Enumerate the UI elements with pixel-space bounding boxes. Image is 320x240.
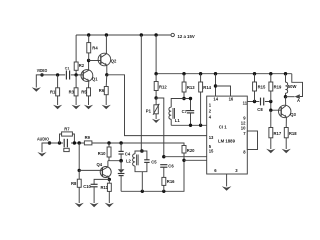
node Q4 base branch <box>78 141 81 144</box>
wire base node to Q4 <box>79 169 102 171</box>
wire IC ground stem <box>226 174 228 186</box>
node pin14 branch <box>214 84 217 87</box>
node L2 tank top <box>140 149 144 153</box>
svg-text:C8: C8 <box>257 107 263 112</box>
svg-text:12 a 15V: 12 a 15V <box>178 34 195 39</box>
svg-text:R11: R11 <box>101 185 109 190</box>
node R10 top <box>107 141 110 144</box>
wire choke bottom <box>285 93 287 97</box>
svg-text:R5: R5 <box>81 89 87 94</box>
wire R1 top <box>57 75 59 88</box>
wire rail to R4 <box>88 35 90 43</box>
node C3 right <box>73 141 76 144</box>
resistor R15 <box>253 74 266 91</box>
svg-text:R12: R12 <box>159 84 167 89</box>
svg-text:R20: R20 <box>187 148 195 153</box>
resistor R2 <box>74 62 85 70</box>
node rail R12 <box>154 72 157 75</box>
capacitor C7 <box>182 99 195 126</box>
wire R18 bottom <box>285 138 287 149</box>
wire audio to network <box>50 142 64 144</box>
resistor R20 <box>182 146 195 154</box>
node rail R14 <box>199 72 202 75</box>
wire R12 bottom <box>155 91 157 99</box>
node R20 bottom <box>182 159 185 162</box>
svg-text:R16: R16 <box>167 179 175 184</box>
wire video to C1 <box>42 74 65 76</box>
wire C10 bottom <box>93 187 95 203</box>
wire R20 bottom <box>183 153 185 160</box>
resistor R8 <box>71 170 81 187</box>
ground R8 <box>75 203 84 207</box>
svg-text:L1: L1 <box>175 118 181 123</box>
wire R1 bottom <box>57 96 59 105</box>
svg-text:C6: C6 <box>168 164 174 169</box>
wire R17 bottom <box>270 138 272 149</box>
wire Q2 emitter <box>106 65 108 75</box>
wire second rail <box>156 73 292 75</box>
wire pin15 line <box>184 159 207 161</box>
AUDIO terminal <box>37 136 51 144</box>
wire R5 bottom <box>88 96 90 105</box>
capacitor C8 <box>257 98 263 112</box>
resistor R18 <box>284 128 297 138</box>
transistor Q1 <box>81 70 98 82</box>
svg-text:A: A <box>297 98 300 103</box>
resistor R17 <box>269 110 282 138</box>
wire R2 to input node <box>75 70 77 75</box>
svg-text:R8: R8 <box>71 181 77 186</box>
node tank bottom right <box>189 124 192 127</box>
capacitor C6 <box>160 164 174 169</box>
node Q1 base <box>74 73 77 76</box>
wire C8 to Q3 base <box>265 102 281 111</box>
node rail x156 <box>154 33 157 36</box>
svg-text:Q3: Q3 <box>290 112 296 117</box>
resistor R3 <box>69 88 78 96</box>
capacitor C5 <box>142 151 157 172</box>
wire R6 bottom <box>105 95 107 105</box>
wire rail to tank L2 top <box>140 35 142 151</box>
svg-text:Q1: Q1 <box>92 77 98 82</box>
varicap diode D1 <box>118 161 125 192</box>
node tank right top <box>189 97 192 100</box>
svg-text:R13: R13 <box>187 85 195 90</box>
node rail x141 <box>140 33 143 36</box>
resistor R19 <box>269 74 282 91</box>
node R16 bottom <box>162 190 165 193</box>
node varicap top <box>119 159 123 163</box>
node Q4 emitter <box>108 178 111 181</box>
coil L2 with core <box>126 151 142 172</box>
ground audio input <box>37 152 46 156</box>
svg-text:50W: 50W <box>288 84 297 89</box>
wire audio input <box>42 143 50 152</box>
svg-text:16: 16 <box>229 96 234 101</box>
wire P1 to ground <box>155 114 157 119</box>
wire Q2 collector <box>105 35 107 54</box>
node Q3 base <box>269 109 272 112</box>
ground R11 <box>105 203 114 207</box>
wire R3 top <box>75 75 77 88</box>
svg-text:C5: C5 <box>151 159 157 164</box>
wire pin7 pin8 loop <box>247 131 257 150</box>
svg-text:L2: L2 <box>126 159 132 164</box>
node C3 left <box>58 141 61 144</box>
svg-text:10: 10 <box>241 126 246 131</box>
svg-text:C4: C4 <box>125 151 131 156</box>
power terminal 12 a 15V <box>171 33 195 39</box>
svg-text:13: 13 <box>209 135 214 140</box>
wire antenna loop <box>292 74 303 97</box>
resistor R11 <box>101 179 112 191</box>
resistor R4 <box>87 43 99 53</box>
resistor R5 <box>81 88 90 96</box>
ground R6 <box>102 105 111 109</box>
potentiometer P1 <box>146 98 160 115</box>
ground R5 <box>84 105 93 109</box>
node rail R4 <box>87 33 90 36</box>
resistor R1 <box>50 88 60 96</box>
ground P1 <box>152 119 160 123</box>
svg-text:R9: R9 <box>85 135 91 140</box>
wire R12 node to C6 column <box>156 98 164 157</box>
capacitor C10 <box>83 179 109 188</box>
ground R3 <box>72 105 81 109</box>
wire pin5 line <box>164 156 207 158</box>
ground R18 <box>282 149 291 153</box>
wire R16 bottom <box>163 185 165 191</box>
svg-text:R1: R1 <box>50 89 56 94</box>
coil L1 with core <box>169 99 184 126</box>
wire R19 bottom <box>270 91 272 102</box>
node R1 junction <box>56 73 59 76</box>
svg-text:R7: R7 <box>64 127 70 132</box>
svg-text:11: 11 <box>243 101 248 106</box>
transistor Q4 <box>97 162 112 178</box>
resistor R9 <box>84 135 92 145</box>
svg-text:LM 1889: LM 1889 <box>218 138 236 143</box>
svg-text:C1: C1 <box>65 67 70 71</box>
ground C10 <box>90 203 99 207</box>
svg-text:R6: R6 <box>99 88 105 93</box>
svg-text:R3: R3 <box>69 89 75 94</box>
transistor Q2 <box>98 53 117 66</box>
svg-text:Q2: Q2 <box>111 59 117 64</box>
svg-text:CI 1: CI 1 <box>219 125 227 130</box>
wire Q3 collector <box>285 97 287 106</box>
svg-text:R18: R18 <box>289 131 297 136</box>
choke coil 50W <box>286 74 297 93</box>
svg-text:C10: C10 <box>83 184 91 189</box>
svg-text:R15: R15 <box>258 85 266 90</box>
VIDEO terminal <box>37 68 48 77</box>
wire rail drop to R2 <box>75 35 77 62</box>
svg-text:VIDEO: VIDEO <box>37 68 48 73</box>
node rail choke <box>284 72 287 75</box>
node C4 top <box>119 141 122 144</box>
capacitor C4 <box>119 143 131 156</box>
node antenna <box>284 95 287 98</box>
wire C4 to varicap node <box>120 154 122 161</box>
node rail R15 <box>253 72 256 75</box>
node R12 P1 <box>154 96 157 99</box>
node tank bottom tap <box>141 190 144 193</box>
wire video out to pin 13 <box>107 75 207 136</box>
wire emitter to R6 <box>105 75 108 87</box>
wire pin16 branch <box>216 86 231 96</box>
svg-text:R10: R10 <box>98 151 106 156</box>
wire audio line to R20 <box>92 143 184 146</box>
svg-text:R14: R14 <box>203 85 211 90</box>
wire R8 bottom <box>78 187 80 203</box>
wire Q1 collector <box>88 61 90 71</box>
node C6 top <box>162 155 165 158</box>
wire bottom return line <box>121 160 184 191</box>
svg-text:Q4: Q4 <box>97 162 103 167</box>
resistor R12 <box>154 74 167 91</box>
svg-text:14: 14 <box>213 96 218 101</box>
node R15 bottom <box>253 100 256 103</box>
resistor R7 <box>60 127 75 143</box>
node Q4 base <box>78 169 81 172</box>
node rail R19 <box>269 72 272 75</box>
ground R17 <box>266 149 275 153</box>
node tank L1 top <box>182 97 185 100</box>
wire Q4 collector <box>107 161 109 167</box>
wire audio node down to Q4 <box>78 143 80 170</box>
wire R4 to collector node <box>88 53 90 61</box>
wire pin11 line <box>247 101 259 103</box>
svg-text:P1: P1 <box>146 109 152 114</box>
svg-text:C7: C7 <box>182 109 188 114</box>
resistor R13 <box>182 74 195 92</box>
node rail pin14 <box>214 72 217 75</box>
capacitor C3 <box>64 139 69 152</box>
wire R11 bottom <box>108 191 110 203</box>
ground IC <box>222 186 232 191</box>
wire top power rail <box>76 34 171 36</box>
wire C3 right <box>71 142 84 144</box>
wire R14 bottom <box>200 92 202 125</box>
resistor R10 <box>98 143 111 157</box>
resistor R6 <box>99 87 108 95</box>
wire C6 to R16 <box>163 167 165 177</box>
wire R10 bottom to C4 node <box>108 157 121 161</box>
resistor R16 <box>162 177 175 185</box>
wire R15 bottom <box>254 91 256 102</box>
node R14 bottom <box>199 124 202 127</box>
node Q1 collector <box>87 59 90 62</box>
wire collector node to Q2 base <box>89 60 101 62</box>
svg-text:AUDIO: AUDIO <box>37 136 50 141</box>
capacitor C1 <box>65 67 70 80</box>
transistor Q3 <box>279 105 297 117</box>
node rail Q2 collector <box>105 33 108 36</box>
wire C1 to base node <box>71 74 83 76</box>
svg-text:R2: R2 <box>79 63 85 68</box>
wire R3 bottom <box>75 96 77 105</box>
ground R1 <box>53 105 62 109</box>
svg-text:R17: R17 <box>274 131 282 136</box>
node R19 bottom <box>269 100 272 103</box>
op-amp U1 LM1889 IC body <box>207 96 248 174</box>
wire video input <box>36 75 42 88</box>
ground video input <box>32 87 41 91</box>
svg-text:15: 15 <box>209 149 214 154</box>
wire rail link down <box>155 35 157 74</box>
wire rail to pins 14 16 <box>215 74 217 96</box>
wire Q4 emitter <box>108 178 110 180</box>
wire tank bottom tap <box>141 172 143 192</box>
wire tank bottom to IC pin4 <box>171 124 207 126</box>
svg-text:R4: R4 <box>92 46 98 51</box>
wire Q1 emitter to R5 <box>88 81 90 88</box>
svg-text:R19: R19 <box>274 85 282 90</box>
wire R13 bottom <box>183 92 185 99</box>
resistor R14 <box>199 74 212 92</box>
wire Q3 emitter <box>285 117 287 128</box>
antenna A arrow <box>286 94 301 103</box>
node rail R13 <box>182 72 185 75</box>
node Q2 emitter <box>105 73 108 76</box>
